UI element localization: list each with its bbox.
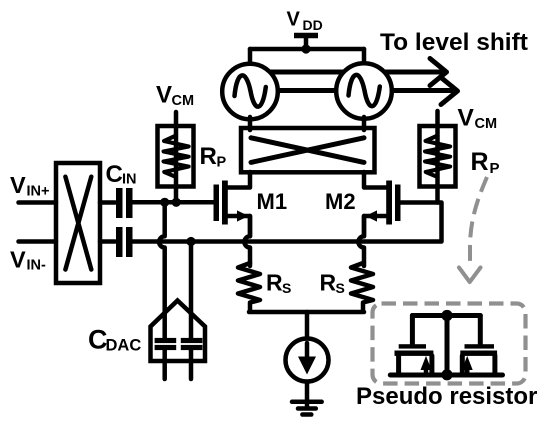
- wire node A down to CDAC with hop: [159, 202, 165, 338]
- gray dashed arrow to inset: [459, 177, 487, 282]
- svg-text:CM: CM: [172, 93, 195, 109]
- svg-text:CM: CM: [475, 116, 498, 132]
- wire M1 source to RS with hop: [244, 216, 250, 266]
- transistor M2: [364, 181, 401, 237]
- capacitor CDAC left: [155, 338, 177, 379]
- node inset top dot: [441, 310, 452, 321]
- source I3 tail current: [286, 339, 329, 382]
- transistor pseudo left: [395, 316, 434, 375]
- label RP left: [200, 143, 227, 171]
- node dot A: [160, 198, 169, 207]
- node dot B: [172, 198, 181, 207]
- label CIN: [106, 161, 137, 188]
- node inset bottom dot: [441, 369, 452, 380]
- svg-text:V: V: [156, 82, 172, 109]
- chopper CH1 cross: [65, 177, 91, 270]
- svg-text:V: V: [287, 9, 301, 31]
- label RS right: [320, 270, 345, 297]
- wire chopper to M1 drain: [226, 172, 250, 188]
- svg-text:IN+: IN+: [27, 184, 50, 200]
- wire chopper to CIN bottom: [100, 239, 115, 244]
- label VIN-: [10, 247, 46, 274]
- svg-text:R: R: [320, 270, 337, 296]
- transistor M1: [214, 181, 251, 237]
- wire chopper to CIN top: [100, 200, 115, 205]
- resistor RP left lead and zigzag: [164, 112, 189, 202]
- label CDAC: [88, 325, 141, 355]
- CDAC house outline: [151, 301, 206, 362]
- inset dashed border: [373, 304, 526, 384]
- resistor RS right: [351, 263, 373, 312]
- inset center wire: [445, 316, 450, 375]
- svg-text:R: R: [200, 143, 217, 170]
- svg-text:IN: IN: [122, 172, 137, 188]
- inset bottom wire: [390, 373, 502, 378]
- node VDD dot: [301, 44, 310, 53]
- wire chopper to M2 drain: [364, 172, 388, 188]
- label VCM right: [458, 104, 498, 132]
- resistor RP left box: [158, 126, 194, 187]
- wire node C down to CDAC: [189, 242, 194, 339]
- transistor pseudo right: [460, 316, 497, 375]
- wire VIN- input: [19, 239, 57, 244]
- chopper CH2 output box: [241, 128, 375, 172]
- label VIN+: [10, 172, 49, 200]
- svg-text:M1: M1: [257, 189, 288, 214]
- capacitor CDAC right: [181, 338, 203, 379]
- capacitor CIN top: [116, 188, 133, 218]
- wire upper output bus to level shift: [250, 70, 440, 75]
- wire VIN+ input: [19, 200, 57, 205]
- svg-text:Pseudo resistor: Pseudo resistor: [356, 383, 537, 410]
- wire VDD rail: [250, 36, 364, 67]
- wire tail tap: [305, 312, 310, 338]
- node dot C: [186, 237, 195, 246]
- wire RS common bottom: [249, 310, 364, 315]
- svg-text:V: V: [10, 247, 26, 273]
- ground: [292, 402, 322, 415]
- svg-text:P: P: [217, 155, 227, 171]
- resistor RS left: [238, 263, 260, 312]
- svg-text:S: S: [282, 280, 291, 296]
- svg-text:S: S: [336, 280, 345, 296]
- label VDD: [287, 9, 323, 34]
- wire CIN top to M1 gate: [133, 200, 216, 205]
- resistor RP right lead and zigzag: [425, 111, 450, 203]
- svg-text:DAC: DAC: [106, 337, 142, 355]
- chopper CH1 input box: [56, 163, 100, 283]
- wire lower output bus to level shift: [250, 88, 451, 93]
- svg-text:V: V: [10, 172, 26, 198]
- wire M2 source to RS with hop: [358, 216, 364, 266]
- resistor RP right box: [420, 126, 456, 187]
- source I1 circle left: [222, 64, 278, 120]
- svg-text:R: R: [471, 148, 489, 176]
- arrowhead upper: [430, 59, 447, 86]
- wire VIN- line to M2 gate: [133, 203, 442, 242]
- wire circles to chopper: [250, 117, 364, 130]
- svg-text:P: P: [490, 160, 500, 177]
- capacitor CIN bottom: [116, 227, 133, 257]
- svg-text:R: R: [266, 270, 283, 296]
- svg-text:IN-: IN-: [27, 258, 47, 274]
- svg-text:M2: M2: [325, 189, 356, 214]
- svg-text:V: V: [458, 104, 475, 131]
- svg-text:DD: DD: [303, 17, 323, 33]
- wire to ground: [305, 382, 310, 408]
- label RP right: [471, 148, 500, 177]
- chopper CH2 cross: [251, 138, 364, 163]
- svg-text:C: C: [106, 161, 123, 188]
- label RS left: [266, 270, 291, 297]
- source I2 circle right: [336, 63, 392, 119]
- svg-text:To level shift: To level shift: [380, 29, 528, 56]
- label VCM left: [156, 82, 194, 110]
- arrowhead lower: [441, 78, 458, 105]
- inset top wire: [412, 313, 480, 318]
